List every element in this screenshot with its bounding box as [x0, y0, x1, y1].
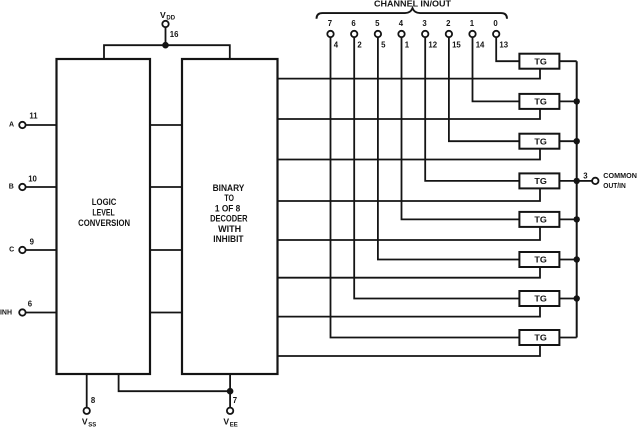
svg-text:DECODER: DECODER: [210, 214, 248, 224]
svg-text:INH: INH: [0, 308, 12, 317]
svg-text:LOGIC: LOGIC: [92, 197, 117, 207]
svg-text:7: 7: [328, 19, 332, 28]
svg-text:14: 14: [476, 41, 485, 50]
svg-text:TO: TO: [224, 193, 234, 203]
svg-text:12: 12: [428, 41, 437, 50]
svg-text:4: 4: [334, 41, 339, 50]
svg-text:5: 5: [381, 41, 386, 50]
svg-text:EE: EE: [230, 422, 238, 427]
svg-text:1 OF 8: 1 OF 8: [215, 203, 240, 213]
svg-text:V: V: [223, 417, 229, 427]
svg-text:BINARY: BINARY: [213, 183, 245, 193]
svg-text:A: A: [9, 122, 14, 129]
svg-text:3: 3: [422, 19, 427, 28]
svg-text:3: 3: [583, 171, 588, 180]
svg-text:CONVERSION: CONVERSION: [78, 218, 130, 228]
svg-text:1: 1: [470, 19, 475, 28]
svg-text:0: 0: [493, 19, 498, 28]
svg-text:6: 6: [28, 300, 33, 309]
svg-text:4: 4: [399, 19, 404, 28]
svg-text:TG: TG: [534, 215, 547, 225]
svg-text:B: B: [9, 184, 14, 191]
svg-text:TG: TG: [534, 136, 547, 146]
svg-text:TG: TG: [534, 97, 547, 107]
svg-text:C: C: [9, 247, 14, 254]
svg-text:V: V: [82, 417, 88, 427]
svg-text:15: 15: [452, 41, 461, 50]
svg-text:V: V: [160, 10, 166, 20]
svg-text:2: 2: [357, 41, 362, 50]
svg-text:TG: TG: [534, 255, 547, 265]
svg-text:COMMON: COMMON: [603, 171, 637, 180]
svg-text:LEVEL: LEVEL: [92, 207, 115, 217]
svg-text:8: 8: [91, 396, 96, 405]
svg-text:OUT/IN: OUT/IN: [603, 181, 626, 190]
svg-text:1: 1: [405, 41, 410, 50]
svg-text:SS: SS: [88, 422, 96, 427]
svg-text:11: 11: [29, 112, 38, 121]
svg-text:16: 16: [170, 30, 179, 39]
svg-text:TG: TG: [534, 56, 547, 66]
svg-text:DD: DD: [166, 16, 175, 22]
svg-text:13: 13: [499, 41, 508, 50]
svg-text:INHIBIT: INHIBIT: [213, 234, 244, 244]
svg-text:TG: TG: [534, 333, 547, 343]
svg-text:2: 2: [446, 19, 451, 28]
svg-text:TG: TG: [534, 176, 547, 186]
svg-text:9: 9: [30, 238, 35, 247]
svg-text:TG: TG: [534, 294, 547, 304]
svg-text:CHANNEL IN/OUT: CHANNEL IN/OUT: [374, 0, 451, 8]
svg-text:5: 5: [375, 19, 380, 28]
svg-text:WITH: WITH: [218, 224, 241, 234]
svg-text:10: 10: [28, 174, 37, 183]
svg-text:6: 6: [351, 19, 356, 28]
svg-text:7: 7: [233, 396, 237, 405]
